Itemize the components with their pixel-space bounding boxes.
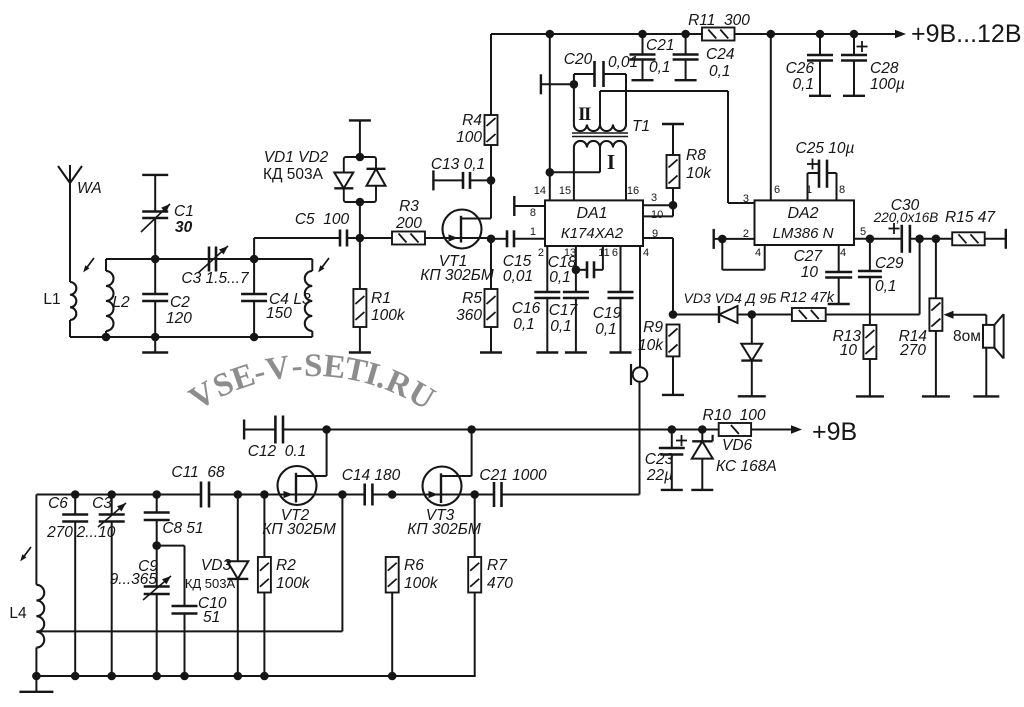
svg-text:VD6: VD6 xyxy=(722,437,753,454)
capacitor C18 (0,1) xyxy=(576,261,603,278)
label R1 value xyxy=(371,307,406,324)
label R10 100 xyxy=(703,407,766,424)
label R13 value xyxy=(840,342,858,359)
wire bottom section top row xyxy=(36,494,201,496)
svg-text:3: 3 xyxy=(651,192,657,204)
pin 5 DA2 xyxy=(860,226,866,238)
label C21 value xyxy=(649,59,671,76)
label L2 xyxy=(112,294,130,311)
junction C10 bottom xyxy=(180,672,189,681)
wire T1 loop top left xyxy=(574,73,595,75)
svg-text:C19: C19 xyxy=(593,305,622,322)
wire pin 16 xyxy=(625,148,627,201)
svg-text:10: 10 xyxy=(651,209,663,221)
junction VT3 source/C21/R7 xyxy=(470,490,479,499)
wire pin 10 xyxy=(643,205,673,216)
junction R6 bottom xyxy=(388,672,397,681)
capacitor C27 (10) xyxy=(825,245,852,304)
arrow of C9 xyxy=(143,576,171,600)
svg-text:C3: C3 xyxy=(92,495,112,512)
svg-text:КС 168А: КС 168А xyxy=(716,458,777,475)
label C11 68 xyxy=(171,464,225,481)
svg-text:C21 1000: C21 1000 xyxy=(479,467,547,484)
label R8 value xyxy=(686,165,712,182)
label L1 xyxy=(43,291,60,308)
svg-text:R15 47: R15 47 xyxy=(945,209,996,226)
svg-text:C5 100: C5 100 xyxy=(295,211,350,228)
label C19 value xyxy=(595,321,617,338)
junction VT3 drain/+9V xyxy=(467,425,476,434)
label C9 value xyxy=(110,571,158,588)
svg-text:R3: R3 xyxy=(399,198,419,215)
svg-text:R12 47k: R12 47k xyxy=(780,290,835,306)
label C1 value 30 xyxy=(175,219,193,236)
svg-text:C17: C17 xyxy=(549,302,579,319)
svg-text:0,1: 0,1 xyxy=(649,59,671,76)
svg-text:9...365: 9...365 xyxy=(110,571,158,588)
svg-text:I: I xyxy=(607,150,615,174)
chassis bar under C26 xyxy=(809,95,831,97)
svg-text:2...10: 2...10 xyxy=(76,524,116,541)
label R1 xyxy=(371,290,391,307)
wire pin 11 xyxy=(602,246,604,270)
label C27 xyxy=(794,248,824,265)
arrow of C3 bottom xyxy=(98,503,126,527)
pin 6 DA2 xyxy=(774,184,780,196)
svg-text:0,1: 0,1 xyxy=(549,269,571,286)
junction VD box bottom xyxy=(356,198,365,207)
chassis bar above VD1 VD2 xyxy=(349,119,371,121)
label VT3 type xyxy=(407,521,481,538)
label VD3 VD4 D9B xyxy=(684,290,777,306)
transformer T1 core xyxy=(572,133,628,137)
adjust mark L2 xyxy=(83,258,94,272)
chassis bar above C1 xyxy=(142,174,168,176)
svg-text:100k: 100k xyxy=(371,307,406,324)
chassis bar under VD4 xyxy=(738,395,766,397)
junction C8 top xyxy=(152,490,161,499)
pin 14 xyxy=(534,185,546,197)
chassis bar above R8 xyxy=(662,123,684,125)
wire pin 5 DA2 xyxy=(854,238,902,240)
svg-text:8: 8 xyxy=(530,207,536,219)
pin 4 xyxy=(643,247,649,259)
svg-text:2: 2 xyxy=(538,247,544,259)
label C5 100 xyxy=(295,211,350,228)
wire bottom row main xyxy=(36,675,475,677)
wire row VT2 to C14 xyxy=(342,494,364,496)
terminal DA1 pin 8 xyxy=(513,196,515,216)
label R13 xyxy=(833,328,862,345)
arrowhead +9V...12V rail xyxy=(895,30,906,38)
label R3 xyxy=(399,198,419,215)
label C24 value xyxy=(709,63,731,80)
transformer T1 winding II xyxy=(574,125,626,132)
chassis bar under R14 xyxy=(922,395,950,397)
terminal DA2 pin 2 xyxy=(713,229,715,249)
terminal left of C13 xyxy=(432,170,434,190)
junction C8/C9/C10 xyxy=(152,541,161,550)
label R9 value xyxy=(638,337,664,354)
svg-text:0,1: 0,1 xyxy=(513,316,535,333)
wire pin4 loop xyxy=(722,239,764,270)
wire DA2 pin6 supply xyxy=(770,34,772,200)
wire C10 branch xyxy=(157,546,185,606)
terminal left of T1 xyxy=(540,74,542,94)
svg-text:10: 10 xyxy=(801,264,819,281)
label R14 xyxy=(899,328,928,345)
wire terminal to T1 loop xyxy=(541,83,574,85)
pin 6 xyxy=(612,247,618,259)
svg-text:30: 30 xyxy=(175,219,193,236)
junction pin14 line / T1 tap xyxy=(546,168,555,177)
svg-text:C28: C28 xyxy=(870,60,899,77)
IC DA2 LM386 xyxy=(755,200,855,245)
wire L4 ground stub xyxy=(35,676,37,692)
capacitor C15 (0,01) xyxy=(491,230,545,247)
label L3 xyxy=(293,291,311,308)
wire VD6 to R10 xyxy=(702,429,718,431)
pin 4 DA2 right xyxy=(840,247,846,259)
pin 2 xyxy=(538,247,544,259)
label C16 value xyxy=(513,316,535,333)
label C29 value xyxy=(875,278,897,295)
svg-text:220,0x16В: 220,0x16В xyxy=(873,210,939,225)
svg-text:150: 150 xyxy=(266,305,292,322)
wire C2 to chassis xyxy=(154,337,156,353)
resistor R1 xyxy=(353,238,366,353)
svg-text:C24: C24 xyxy=(706,46,735,63)
svg-text:R7: R7 xyxy=(487,557,508,574)
junction VD4 top xyxy=(748,310,757,319)
svg-text:DA2: DA2 xyxy=(787,205,818,222)
wire VD3 row left xyxy=(673,314,719,316)
junction rail/DA2 pin6 xyxy=(767,30,776,39)
svg-text:1: 1 xyxy=(530,226,536,238)
resistor R6 xyxy=(386,557,399,676)
label R11 300 xyxy=(688,12,750,29)
inductor L3 xyxy=(305,259,313,337)
label R4 value xyxy=(456,129,482,146)
label WA xyxy=(77,180,102,197)
wire T1 tap to DA2 pin3 xyxy=(728,91,755,203)
chassis bar under C28 xyxy=(843,95,865,97)
label C19 xyxy=(593,305,622,322)
pin 3 xyxy=(651,192,657,204)
svg-text:L2: L2 xyxy=(112,294,130,311)
pin 13 xyxy=(564,247,576,259)
capacitor C3 variable (2...10) xyxy=(99,495,125,677)
svg-text:C8 51: C8 51 xyxy=(162,520,203,537)
junction C23/+9V xyxy=(668,425,677,434)
transistor VT1 xyxy=(425,180,491,248)
wire T1 loop left xyxy=(573,74,575,125)
capacitor C4 (150) xyxy=(241,259,267,337)
svg-text:C12 0.1: C12 0.1 xyxy=(248,443,307,460)
label winding I xyxy=(607,150,615,174)
wire +9V row C12 to VT3 xyxy=(327,429,640,431)
pin 2 DA2 xyxy=(743,228,749,240)
label VT1 xyxy=(439,253,467,270)
svg-text:R1: R1 xyxy=(371,290,391,307)
wire R15 to terminal xyxy=(985,238,1006,240)
svg-text:C14 180: C14 180 xyxy=(342,467,401,484)
chassis bar under speaker xyxy=(973,395,999,397)
transistor VT3 xyxy=(423,430,472,506)
label R5 value xyxy=(456,307,482,324)
svg-text:КД 503А: КД 503А xyxy=(263,166,324,183)
capacitor C26 (0,1) xyxy=(807,34,833,96)
wire pin 4 lower xyxy=(502,382,640,495)
svg-text:S: S xyxy=(304,348,323,384)
svg-text:C29: C29 xyxy=(875,255,904,272)
pin 16 xyxy=(627,185,639,197)
svg-text:R6: R6 xyxy=(404,557,424,574)
label C28 value xyxy=(870,76,905,93)
svg-text:L4: L4 xyxy=(9,605,27,622)
svg-text:270: 270 xyxy=(46,524,73,541)
arrow of C1 xyxy=(141,204,170,232)
svg-text:VD1 VD2: VD1 VD2 xyxy=(264,149,329,166)
junction C18/pin13 line xyxy=(572,266,581,275)
label C9 xyxy=(138,558,158,575)
junction C9 bottom xyxy=(152,672,161,681)
wire VT2 source to L4 tap xyxy=(36,495,342,632)
capacitor C30 (220,0x16V) xyxy=(889,223,910,253)
junction R6 top xyxy=(388,490,397,499)
capacitor C21 bottom (1000) xyxy=(494,482,502,507)
svg-text:C23: C23 xyxy=(645,451,674,468)
svg-text:200: 200 xyxy=(395,215,422,232)
wire VT1 source to node xyxy=(482,237,492,239)
wire pin 6 xyxy=(620,246,622,292)
wire +9V row to C23 xyxy=(640,429,702,431)
wire +9V...12V top rail xyxy=(491,33,702,35)
diode VD2 xyxy=(367,169,386,186)
label T1 xyxy=(632,118,650,135)
junction VD6/+9V xyxy=(698,425,707,434)
speaker 8ohm xyxy=(983,314,1004,396)
inductor L2 xyxy=(106,259,114,337)
label C21 xyxy=(646,37,674,54)
label R8 xyxy=(686,147,706,164)
svg-text:4: 4 xyxy=(840,247,846,259)
label C4 xyxy=(269,291,289,308)
socket jack on pin 4 line xyxy=(631,364,647,385)
resistor R7 xyxy=(468,495,481,677)
svg-text:51: 51 xyxy=(203,609,220,626)
svg-text:II: II xyxy=(578,104,591,125)
svg-text:C16: C16 xyxy=(512,300,541,317)
junction R4/C13/VT1 drain xyxy=(487,176,496,185)
svg-text:C20: C20 xyxy=(564,51,593,68)
junction VT2 drain/+9V xyxy=(322,425,331,434)
label C20 value xyxy=(608,54,638,71)
inductor L4 xyxy=(36,495,44,677)
junction C3 top xyxy=(107,490,116,499)
label 8om xyxy=(953,328,981,345)
diode VD3 (bottom) xyxy=(227,561,248,676)
capacitor C10 (51) xyxy=(172,606,198,676)
junction rail/C26 xyxy=(816,30,825,39)
svg-text:120: 120 xyxy=(166,310,192,327)
label C20 xyxy=(564,51,593,68)
label C15 xyxy=(503,253,532,270)
label VD1 VD2 xyxy=(264,149,329,166)
capacitor C25 (10u) xyxy=(807,159,837,201)
junction VD3 bottom row xyxy=(234,672,243,681)
chassis bar under C16 xyxy=(536,351,558,353)
wire C4 node to C5 xyxy=(254,238,340,259)
chassis bar under R9 xyxy=(662,394,684,396)
label C16 xyxy=(512,300,541,317)
label C15 value xyxy=(503,268,533,285)
label C30 xyxy=(891,197,920,214)
junction L4 bottom xyxy=(32,672,41,681)
resistor R3 xyxy=(392,232,425,245)
wire VT3 source xyxy=(462,494,495,496)
diode VD4 xyxy=(741,344,762,397)
diode VD1 xyxy=(334,173,353,189)
wire tank bottom row xyxy=(70,336,312,338)
wire VD3 to VD4 node xyxy=(738,314,752,316)
svg-text:+9В: +9В xyxy=(812,418,857,446)
label R2 xyxy=(276,557,296,574)
label C26 xyxy=(786,60,815,77)
svg-text:15: 15 xyxy=(559,185,571,197)
junction VT2 source/tap xyxy=(338,490,347,499)
wire DA1 supply pin 14 xyxy=(549,34,551,200)
svg-text:11: 11 xyxy=(598,247,609,259)
label R9 xyxy=(643,319,663,336)
svg-text:C6: C6 xyxy=(48,495,68,512)
junction R2 top xyxy=(260,490,269,499)
terminal left of C12 xyxy=(243,420,245,440)
junction C20/winding II left xyxy=(570,80,579,89)
svg-text:360: 360 xyxy=(456,307,482,324)
wire pin 8 xyxy=(514,205,545,207)
IC DA1 K174XA2 xyxy=(545,200,643,246)
junction rail/C28 xyxy=(850,30,859,39)
adjust mark L3 xyxy=(318,258,329,272)
capacitor C6 (270) xyxy=(62,495,88,677)
label C10 xyxy=(198,595,227,612)
svg-text:4: 4 xyxy=(643,247,649,259)
label C2 xyxy=(170,294,190,311)
svg-text:C2: C2 xyxy=(170,294,190,311)
wire VD box to signal row xyxy=(359,202,361,238)
svg-text:16: 16 xyxy=(627,185,639,197)
label C26 value xyxy=(792,76,814,93)
capacitor C19 (0,1) xyxy=(608,292,634,353)
chassis bar under C17 xyxy=(565,351,587,353)
junction R2 bottom xyxy=(260,672,269,681)
svg-text:C27: C27 xyxy=(794,248,824,265)
wire tank top row xyxy=(106,258,312,260)
label C17 xyxy=(549,302,579,319)
resistor R2 xyxy=(258,495,271,677)
label C13 0,1 xyxy=(431,156,485,173)
label C23 value xyxy=(646,467,673,484)
label +9V...12V xyxy=(911,20,1022,48)
label KD503A top xyxy=(263,166,324,183)
svg-text:R2: R2 xyxy=(276,557,296,574)
svg-text:R5: R5 xyxy=(462,290,482,307)
wire VD3 lower lead xyxy=(237,495,239,562)
svg-text:DA1: DA1 xyxy=(576,205,607,222)
junction pin5/C29 xyxy=(866,235,875,244)
label VT2 xyxy=(281,507,310,524)
ground xyxy=(19,691,53,693)
chassis bar under R13 xyxy=(856,395,884,397)
label C3 bottom xyxy=(92,495,112,512)
svg-text:270: 270 xyxy=(899,342,926,359)
wire pin 15 xyxy=(573,148,575,201)
pin 8 DA2 xyxy=(839,184,845,196)
pin 10 xyxy=(651,209,663,221)
label VT1 type xyxy=(420,267,494,284)
svg-text:T1: T1 xyxy=(632,118,650,135)
watermark vse-v-seti.ru xyxy=(183,348,441,418)
svg-text:C26: C26 xyxy=(786,60,815,77)
junction bottom row C2 xyxy=(151,333,160,342)
pin 3 DA2 xyxy=(743,193,749,205)
svg-text:22µ: 22µ xyxy=(646,467,673,484)
arrowhead +9V xyxy=(791,425,802,433)
resistor R13 xyxy=(863,325,876,396)
pin 1 xyxy=(530,226,536,238)
junction C30/R14 top xyxy=(932,235,941,244)
capacitor C9 variable (9...365) xyxy=(144,546,170,676)
label C14 180 xyxy=(342,467,401,484)
label C24 xyxy=(706,46,735,63)
antenna WA xyxy=(58,165,82,282)
label C25 10u xyxy=(796,140,855,157)
junction bottom row L2 xyxy=(102,333,111,342)
label C29 xyxy=(875,255,904,272)
chassis bar under R5 xyxy=(480,351,502,353)
label C18 value xyxy=(549,269,571,286)
resistor R14 xyxy=(929,239,942,397)
svg-text:100µ: 100µ xyxy=(870,76,905,93)
wiper arrow into R14 xyxy=(944,311,987,319)
svg-text:6: 6 xyxy=(774,184,780,196)
wire T1 loop top right xyxy=(604,73,627,75)
svg-text:L1: L1 xyxy=(43,291,60,308)
transistor VT2 xyxy=(264,430,326,506)
wire pin 13 xyxy=(575,246,577,292)
label R2 value xyxy=(276,575,311,592)
chassis bar under VD6 xyxy=(691,489,713,491)
label R12 47k xyxy=(780,290,835,306)
svg-text:КП 302БМ: КП 302БМ xyxy=(262,521,336,538)
chassis bar under C19 xyxy=(610,351,632,353)
label VD6 xyxy=(722,437,753,454)
svg-text:КП 302БМ: КП 302БМ xyxy=(407,521,481,538)
capacitor C14 (180) xyxy=(365,484,373,506)
label R7 xyxy=(487,557,508,574)
junction rail/DA1 supply xyxy=(546,30,555,39)
svg-text:10k: 10k xyxy=(638,337,664,354)
pin 1 DA2 xyxy=(806,184,812,196)
wire R12 to C30 node xyxy=(826,239,920,315)
label C10 value xyxy=(203,609,220,626)
chassis bar under C2 xyxy=(142,351,168,353)
label winding II xyxy=(578,104,591,125)
svg-text:8: 8 xyxy=(839,184,845,196)
resistor R9 xyxy=(667,325,680,395)
capacitor C13 (0,1) xyxy=(433,172,491,189)
